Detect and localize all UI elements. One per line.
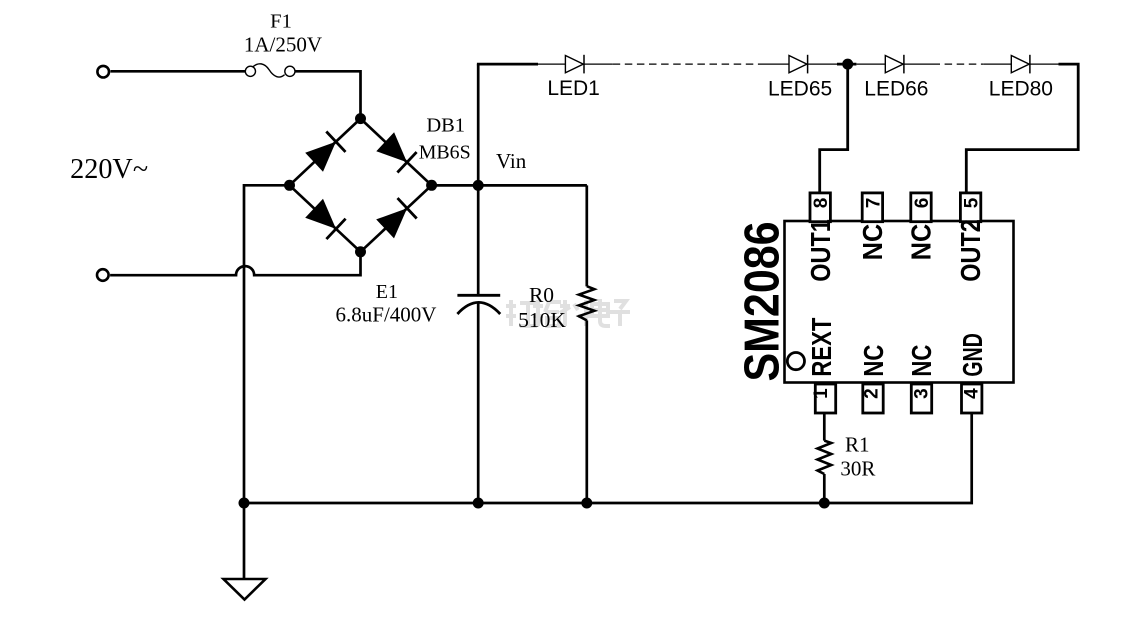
svg-text:5: 5 bbox=[962, 197, 983, 208]
pin 5 box bbox=[960, 193, 980, 222]
svg-text:510K: 510K bbox=[518, 308, 566, 332]
junction Vin node bbox=[473, 180, 484, 191]
svg-text:LED1: LED1 bbox=[547, 77, 600, 100]
node Vin wire (bridge right vertex to R0 branch) bbox=[432, 184, 587, 187]
svg-text:NC: NC bbox=[858, 344, 889, 376]
op-amp U1 body (SM2086) bbox=[785, 221, 1014, 383]
LED66 bbox=[885, 55, 904, 74]
svg-text:Vin: Vin bbox=[496, 149, 527, 173]
wire R1 to rail bbox=[823, 474, 826, 503]
fuse F1 bbox=[245, 64, 295, 77]
wire capacitor to rail bbox=[477, 303, 480, 503]
svg-text:REXT: REXT bbox=[806, 317, 837, 376]
node ground rail left junction bbox=[239, 498, 250, 509]
svg-text:MB6S: MB6S bbox=[419, 142, 471, 164]
junction cap-rail bbox=[473, 498, 484, 509]
pin 1 box bbox=[815, 384, 835, 413]
junction left vertex bbox=[284, 180, 295, 191]
watermark bbox=[506, 299, 630, 326]
wire to ground symbol bbox=[243, 503, 246, 579]
svg-text:NC: NC bbox=[906, 224, 937, 261]
junction right vertex bbox=[426, 180, 437, 191]
svg-text:LED65: LED65 bbox=[768, 78, 832, 101]
svg-text:NC: NC bbox=[857, 224, 888, 261]
svg-text:SM2086: SM2086 bbox=[734, 222, 789, 382]
wire ground rail bbox=[244, 502, 824, 505]
bridge rectifier DB1 bbox=[284, 113, 437, 257]
wire LED feed (thick) bbox=[477, 63, 538, 66]
svg-text:NC: NC bbox=[906, 344, 937, 376]
svg-text:4: 4 bbox=[962, 388, 983, 399]
svg-text:2: 2 bbox=[862, 388, 883, 399]
wire LED1 to dashes bbox=[583, 63, 612, 65]
resistor R0 bbox=[579, 286, 594, 320]
wire Vin to capacitor bbox=[477, 185, 480, 294]
resistor R1 bbox=[818, 441, 832, 474]
LED1 bbox=[565, 55, 584, 74]
svg-text:8: 8 bbox=[811, 198, 832, 209]
pin 3 box bbox=[911, 384, 931, 413]
wire LED65 to junction (thin then thick) bbox=[807, 63, 837, 65]
wire terminal to fuse bbox=[111, 70, 246, 73]
svg-text:E1: E1 bbox=[376, 281, 398, 303]
svg-text:OUT1: OUT1 bbox=[805, 219, 836, 282]
svg-text:30R: 30R bbox=[840, 457, 875, 481]
wire pin 1 to R1 bbox=[823, 413, 826, 441]
pin 6 box bbox=[911, 193, 931, 222]
svg-text:220V~: 220V~ bbox=[70, 153, 148, 185]
svg-text:LED80: LED80 bbox=[989, 78, 1053, 101]
pin 2 box bbox=[863, 384, 883, 413]
wire LED66 to dashes bbox=[903, 63, 932, 65]
svg-text:GND: GND bbox=[957, 333, 988, 377]
diode D-top-right bbox=[376, 132, 407, 162]
wire dashed segment 1 bbox=[613, 63, 763, 65]
svg-text:OUT2: OUT2 bbox=[955, 219, 986, 282]
svg-text:LED66: LED66 bbox=[864, 78, 928, 101]
pin 4 box bbox=[962, 384, 982, 413]
capacitor E1 bbox=[457, 295, 500, 314]
svg-text:6: 6 bbox=[912, 198, 933, 209]
AC input terminal (top) bbox=[97, 66, 109, 78]
ground bbox=[224, 579, 266, 600]
diode D-bottom-right bbox=[376, 208, 407, 238]
svg-text:F1: F1 bbox=[270, 11, 292, 33]
junction R0-rail bbox=[581, 498, 592, 509]
svg-text:1A/250V: 1A/250V bbox=[244, 33, 322, 57]
wire Vin corner to R0 bbox=[585, 185, 588, 286]
wire R0 to rail bbox=[585, 320, 588, 503]
svg-text:6.8uF/400V: 6.8uF/400V bbox=[336, 303, 437, 327]
wire dashes to LED80 bbox=[984, 63, 1012, 65]
pin 7 box bbox=[862, 193, 882, 222]
AC input terminal (bottom) bbox=[97, 269, 109, 281]
wire junction to LED66 bbox=[856, 63, 885, 65]
svg-text:R0: R0 bbox=[529, 283, 554, 307]
wire LED80 lead bbox=[1029, 63, 1058, 65]
wire Vin vertical to LED string bbox=[477, 64, 480, 185]
pin 8 box bbox=[810, 193, 830, 222]
wire pin 4 (GND) to rail bbox=[824, 413, 971, 503]
wire dashed segment 2 bbox=[933, 63, 984, 65]
pin 1 indicator bbox=[787, 353, 804, 370]
wire terminal to bridge bottom with hop bbox=[110, 252, 360, 275]
diode D-bottom-left bbox=[305, 199, 336, 229]
wire bridge left vertex to ground rail bbox=[244, 185, 290, 503]
svg-text:3: 3 bbox=[912, 388, 933, 399]
junction bottom vertex bbox=[355, 246, 366, 257]
wire LED string end to pin 5 (OUT2) bbox=[966, 64, 1078, 194]
svg-text:R1: R1 bbox=[845, 432, 870, 456]
LED65 bbox=[789, 55, 808, 74]
wire fuse to bridge top bbox=[295, 71, 361, 118]
wire tap to pin 8 (OUT1) bbox=[820, 64, 848, 194]
junction R1-rail bbox=[819, 498, 830, 509]
svg-text:DB1: DB1 bbox=[426, 115, 465, 137]
junction LED string tap bbox=[842, 59, 853, 70]
junction top vertex bbox=[355, 113, 366, 124]
wire lead to LED1 (thin) bbox=[538, 63, 565, 65]
svg-text:7: 7 bbox=[863, 198, 884, 209]
LED80 bbox=[1011, 55, 1030, 74]
svg-text:1: 1 bbox=[811, 388, 832, 399]
wire dashes to LED65 bbox=[763, 63, 789, 65]
diode D-top-left bbox=[305, 142, 336, 172]
